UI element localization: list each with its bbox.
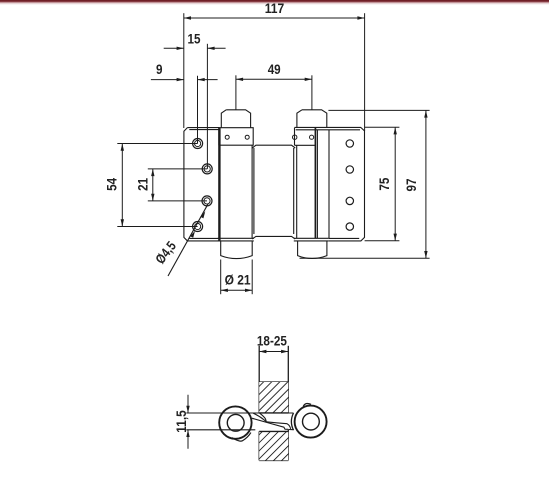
dimension 18-25 line — [259, 351, 288, 353]
dimension 11,5 arrow top (outside) — [186, 406, 189, 413]
left knuckle bottom tab — [232, 433, 251, 441]
right leaf screw hole 1 — [346, 140, 353, 147]
left barrel bottom cap — [221, 241, 253, 259]
svg-text:97: 97 — [404, 179, 419, 192]
left barrel collar pin hole left — [225, 135, 229, 139]
leader line diameter 4,5 through hole 4 to hole 3 — [168, 204, 208, 276]
dimension 21 arrow top — [151, 169, 154, 176]
dimension 9 line left tail — [151, 79, 184, 81]
dimension 54 line — [121, 144, 123, 227]
dimension 21 arrow bottom — [151, 194, 154, 201]
dimension 75 line — [394, 127, 396, 241]
dimension 9 arrow right (outside) — [198, 78, 205, 81]
left leaf screw hole 4 — [193, 222, 203, 232]
dimension 49 extension line left (left barrel axis) — [235, 75, 237, 109]
left leaf screw hole 1 — [193, 139, 203, 149]
svg-text:21: 21 — [136, 177, 151, 190]
dimension 49 line — [236, 78, 312, 80]
right knuckle inner circle (pin) — [303, 413, 320, 430]
door panel bottom edge — [259, 459, 288, 461]
dimension 15 arrow left (outside) — [177, 47, 184, 50]
leader arrow at hole 3 — [200, 211, 205, 218]
dimension 97 extension line top — [328, 109, 429, 111]
dimension 117 extension line right — [364, 13, 366, 131]
dimension 97 arrow top — [424, 110, 427, 117]
dimension 97 line — [425, 110, 427, 258]
door panel top edge — [259, 381, 288, 383]
dimension diameter 21 arrow left — [221, 289, 228, 292]
right barrel cylinder body left edge — [296, 145, 298, 238]
dimension 49 arrow left — [236, 78, 243, 81]
dimension 9 line right tail — [198, 79, 218, 81]
dimension 97 extension line bottom — [300, 257, 430, 259]
dimension 75 extension line top — [365, 126, 400, 128]
dimension 97 arrow bottom — [424, 251, 427, 258]
left barrel top cap — [221, 110, 250, 128]
dimension diameter 21 line — [221, 289, 253, 291]
left leaf plate outline — [184, 128, 220, 241]
left barrel bottom washer (double line) — [218, 237, 254, 239]
dimension diameter 21 extension line right — [251, 260, 253, 295]
dimension 54 arrow top — [121, 144, 124, 151]
dimension diameter 21 extension line left — [220, 260, 222, 295]
left leaf screw hole 2 — [202, 164, 212, 174]
dimension 117 extension line left — [183, 13, 185, 128]
svg-text:9: 9 — [156, 62, 163, 77]
strap left leaf end flap outer curve — [253, 413, 266, 422]
svg-text:117: 117 — [265, 1, 285, 16]
door panel hatch lower block — [259, 431, 288, 460]
dimension 9 extension line (hole column 1) — [197, 76, 199, 144]
door panel left edge upper part — [258, 346, 260, 413]
dimension diameter 21 arrow right — [245, 289, 252, 292]
svg-text:Ø 21: Ø 21 — [225, 272, 251, 287]
strap fold upper diagonal — [266, 422, 290, 429]
left leaf plate right edge (thick, at barrel) — [218, 128, 220, 241]
dimension 54 arrow bottom — [121, 219, 124, 226]
leader arrow at hole 4 — [190, 231, 195, 238]
svg-text:75: 75 — [377, 177, 392, 190]
dimension 49 arrow right — [305, 78, 312, 81]
top red border bar — [0, 0, 549, 5]
right barrel collar pin hole right — [310, 135, 314, 139]
right knuckle wrap arc — [291, 413, 293, 430]
dimension 21 extension line top — [148, 168, 207, 170]
dimension 21 line — [152, 169, 154, 201]
right barrel top cap — [297, 110, 327, 128]
dimension 49 extension line right (right barrel axis) — [311, 75, 313, 109]
dimension 15 line left tail — [164, 47, 184, 49]
right leaf screw hole 2 — [346, 166, 353, 173]
left barrel cylinder body — [219, 145, 221, 238]
left barrel collar — [219, 128, 253, 146]
dimension 11,5 arrow bottom (outside) — [186, 430, 189, 437]
left leaf screw hole 3 — [202, 196, 212, 206]
dimension 18-25 arrow right — [281, 350, 288, 353]
dimension 117 arrow left — [184, 16, 191, 19]
dimension 18-25 arrow left — [259, 350, 266, 353]
right leaf screw hole 3 — [346, 197, 353, 204]
dimension 75 arrow bottom — [394, 234, 397, 241]
right barrel bottom washer (double line) — [294, 237, 329, 239]
right barrel collar pin hole left (half hidden) — [293, 135, 297, 139]
right leaf plate outline — [295, 127, 365, 240]
right barrel bottom cap — [298, 241, 327, 259]
door panel left edge lower part — [258, 431, 260, 460]
dimension 11,5 line bottom tail — [187, 430, 189, 449]
dimension 21 extension line bottom — [148, 200, 207, 202]
svg-text:54: 54 — [104, 177, 119, 190]
svg-text:15: 15 — [188, 32, 201, 47]
strap right leaf bottom short line — [288, 429, 294, 431]
door panel hatch lower block top edge — [259, 430, 288, 432]
door panel hatch upper block — [259, 382, 288, 413]
dimension 117 line — [184, 17, 365, 19]
left knuckle outer circle — [219, 406, 251, 438]
dimension 11,5 line top tail — [187, 395, 189, 413]
dimension 75 extension line bottom — [365, 240, 400, 242]
svg-text:18-25: 18-25 — [257, 334, 287, 349]
right knuckle outer circle — [295, 406, 327, 438]
dimension 54 extension line top — [117, 143, 197, 145]
left barrel collar pin hole right — [245, 135, 249, 139]
middle plate outline — [252, 145, 295, 239]
right knuckle top tab — [303, 403, 311, 406]
left knuckle inner circle (pin) — [227, 414, 244, 431]
dimension 75 arrow top — [394, 127, 397, 134]
strap bottom edge line left part — [186, 429, 255, 431]
right barrel collar — [295, 128, 316, 146]
door panel hatch upper block bottom edge — [259, 412, 288, 414]
strap top edge line — [186, 412, 293, 414]
right leaf fold edge (double vertical line) — [314, 128, 316, 239]
dimension 117 arrow right — [357, 16, 364, 19]
strap fold lower diagonal — [252, 418, 288, 429]
dimension 15 arrow right (outside) — [207, 47, 214, 50]
dimension 15 line right tail — [207, 47, 225, 49]
door panel right edge lower part — [287, 430, 289, 461]
right leaf hem line at barrel tangent — [328, 130, 330, 239]
dimension 9 arrow left (outside) — [177, 78, 184, 81]
dimension 15 extension line (hole column 2) — [206, 44, 208, 169]
door panel right edge upper part — [287, 346, 289, 413]
dimension 54 extension line bottom — [117, 226, 197, 228]
strap left leaf end flap inner curve — [260, 413, 267, 422]
svg-text:49: 49 — [268, 62, 281, 77]
right leaf screw hole 4 — [346, 223, 353, 230]
